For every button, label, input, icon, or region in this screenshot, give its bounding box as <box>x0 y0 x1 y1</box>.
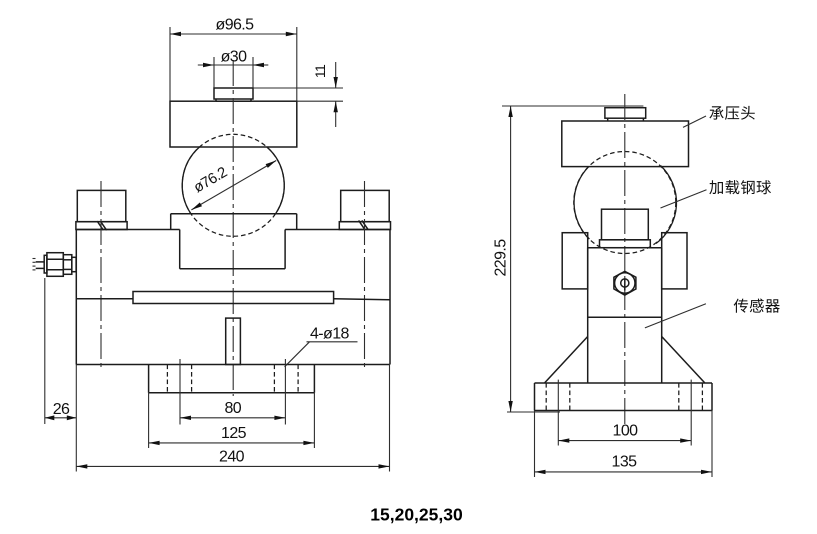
dim 26 text <box>53 401 70 418</box>
dim ø96.5 text <box>216 17 255 34</box>
side view seat cup boss <box>602 209 649 240</box>
leader line for 加载钢球 <box>661 190 707 208</box>
side view bolt inner circle <box>621 279 629 287</box>
dim 100 line <box>558 438 691 442</box>
dim 125 extension lines <box>149 393 315 448</box>
dim 135 line <box>535 470 713 474</box>
side view centerline <box>624 94 626 424</box>
side view pressure head block <box>562 121 689 167</box>
svg-text:100: 100 <box>613 423 639 440</box>
dim ø96.5 line with arrows <box>170 32 297 36</box>
side view bolt slot <box>624 279 626 290</box>
cable wires <box>36 262 45 269</box>
front view centerline <box>232 60 234 396</box>
front view pressure head block <box>170 101 297 147</box>
dim 26 line <box>45 415 77 420</box>
front view ball seat cup walls <box>180 230 285 269</box>
side view foot flange <box>535 383 713 411</box>
label 加载钢球 (loading steel ball) <box>709 180 771 194</box>
dim 11 arrows <box>334 62 338 127</box>
svg-text:229.5: 229.5 <box>493 239 510 277</box>
side view bolt hexagon <box>614 271 636 295</box>
svg-text:ø96.5: ø96.5 <box>216 17 255 34</box>
dim 135 extension lines <box>535 411 713 478</box>
svg-text:15,20,25,30: 15,20,25,30 <box>370 505 463 525</box>
label 承压头 (pressure head) <box>709 106 754 120</box>
dim 125 line <box>149 441 315 445</box>
front view body split line left <box>76 298 133 300</box>
side view left body end block <box>562 233 588 289</box>
dim ø76.2 text (rotated) <box>191 164 230 197</box>
front view main body outline <box>76 230 390 365</box>
dim 229.5 line <box>508 106 512 412</box>
dim 80 text <box>224 400 241 417</box>
side view top cap <box>605 108 646 121</box>
dim 11 text (rotated) <box>312 64 328 78</box>
dim ø76.2 diameter arrow <box>191 161 276 210</box>
dim 100 extension lines <box>558 380 691 446</box>
front view foot bolt hole right (dashed) <box>274 365 298 393</box>
front view left ear washer <box>76 222 127 230</box>
side view bolt outer circle <box>615 273 635 293</box>
svg-text:26: 26 <box>53 401 70 418</box>
svg-text:135: 135 <box>612 454 638 471</box>
cable wire broken ends <box>33 259 36 270</box>
front view left mounting ear <box>77 190 126 221</box>
cable gland flange <box>44 255 47 273</box>
dim 229.5 text (rotated) <box>493 239 510 277</box>
cable gland second hex <box>63 255 72 275</box>
front view left ear centerline <box>100 181 102 368</box>
dim 240 text <box>219 449 245 466</box>
dim 26 extension line <box>44 278 46 424</box>
side view seat cup plate <box>600 240 651 248</box>
front view right mounting ear <box>341 190 390 221</box>
title text 15,20,25,30 <box>370 505 463 525</box>
side view ball visible solid arc left <box>574 167 589 239</box>
front view ball seat cup rim <box>171 214 297 230</box>
front view body split line right <box>334 299 390 300</box>
dim 229.5 extension lines <box>502 106 643 412</box>
dim 240 line <box>76 464 389 468</box>
front view pressure head side edges extended (ext lines of dim 96.5) <box>170 27 297 101</box>
side view right body end block <box>662 233 687 289</box>
leader line for 承压头 <box>683 116 706 127</box>
side view sensor column <box>588 248 662 383</box>
front view boss (pressure cap stem) <box>214 88 253 101</box>
dim 100 text <box>613 423 639 440</box>
svg-text:125: 125 <box>221 425 247 442</box>
side view loading ball (dashed circle) <box>574 152 676 254</box>
cable gland washer <box>72 257 76 271</box>
side view ball visible solid arc <box>656 166 677 244</box>
front view foot flange <box>149 365 315 393</box>
front view center pin <box>226 318 241 364</box>
svg-text:11: 11 <box>312 64 328 78</box>
dim 125 text <box>221 425 247 442</box>
leader line for 传感器 <box>645 304 706 328</box>
front view foot bolt hole left (dashed) <box>167 365 191 393</box>
dim 80 line <box>180 416 285 420</box>
svg-text:4-ø18: 4-ø18 <box>310 325 349 342</box>
front view right ear washer <box>339 222 390 230</box>
label 传感器 (sensor) <box>734 299 780 313</box>
side view foot hole right (dashed) <box>679 383 703 411</box>
label 4-ø18 text <box>310 325 349 342</box>
front view right ear centerline <box>364 181 366 368</box>
dim 11 extension lines <box>253 88 343 101</box>
side view foot hole left (dashed) <box>546 383 570 411</box>
side view right gusset <box>662 337 705 383</box>
dim ø30 line with outside arrows <box>198 63 268 67</box>
svg-text:80: 80 <box>224 400 241 417</box>
dim ø30 text <box>221 49 247 66</box>
dim 80 extension lines <box>180 359 285 425</box>
dim 135 text <box>612 454 638 471</box>
front view ball visible solid arc right <box>267 147 284 214</box>
leader 4-ø18 <box>285 342 358 367</box>
cable gland hex nut <box>47 253 63 277</box>
front view left washer hatch tick <box>97 221 106 230</box>
dim 240 extension lines <box>76 364 389 472</box>
front view diaphragm slot bar <box>133 292 334 304</box>
front view loading ball (dashed circle) <box>182 134 284 236</box>
side view left gusset <box>545 337 588 383</box>
front view ball visible solid arc left <box>182 147 199 214</box>
svg-text:ø30: ø30 <box>221 49 247 66</box>
front view right washer hatch tick <box>359 220 368 229</box>
svg-text:240: 240 <box>219 449 245 466</box>
